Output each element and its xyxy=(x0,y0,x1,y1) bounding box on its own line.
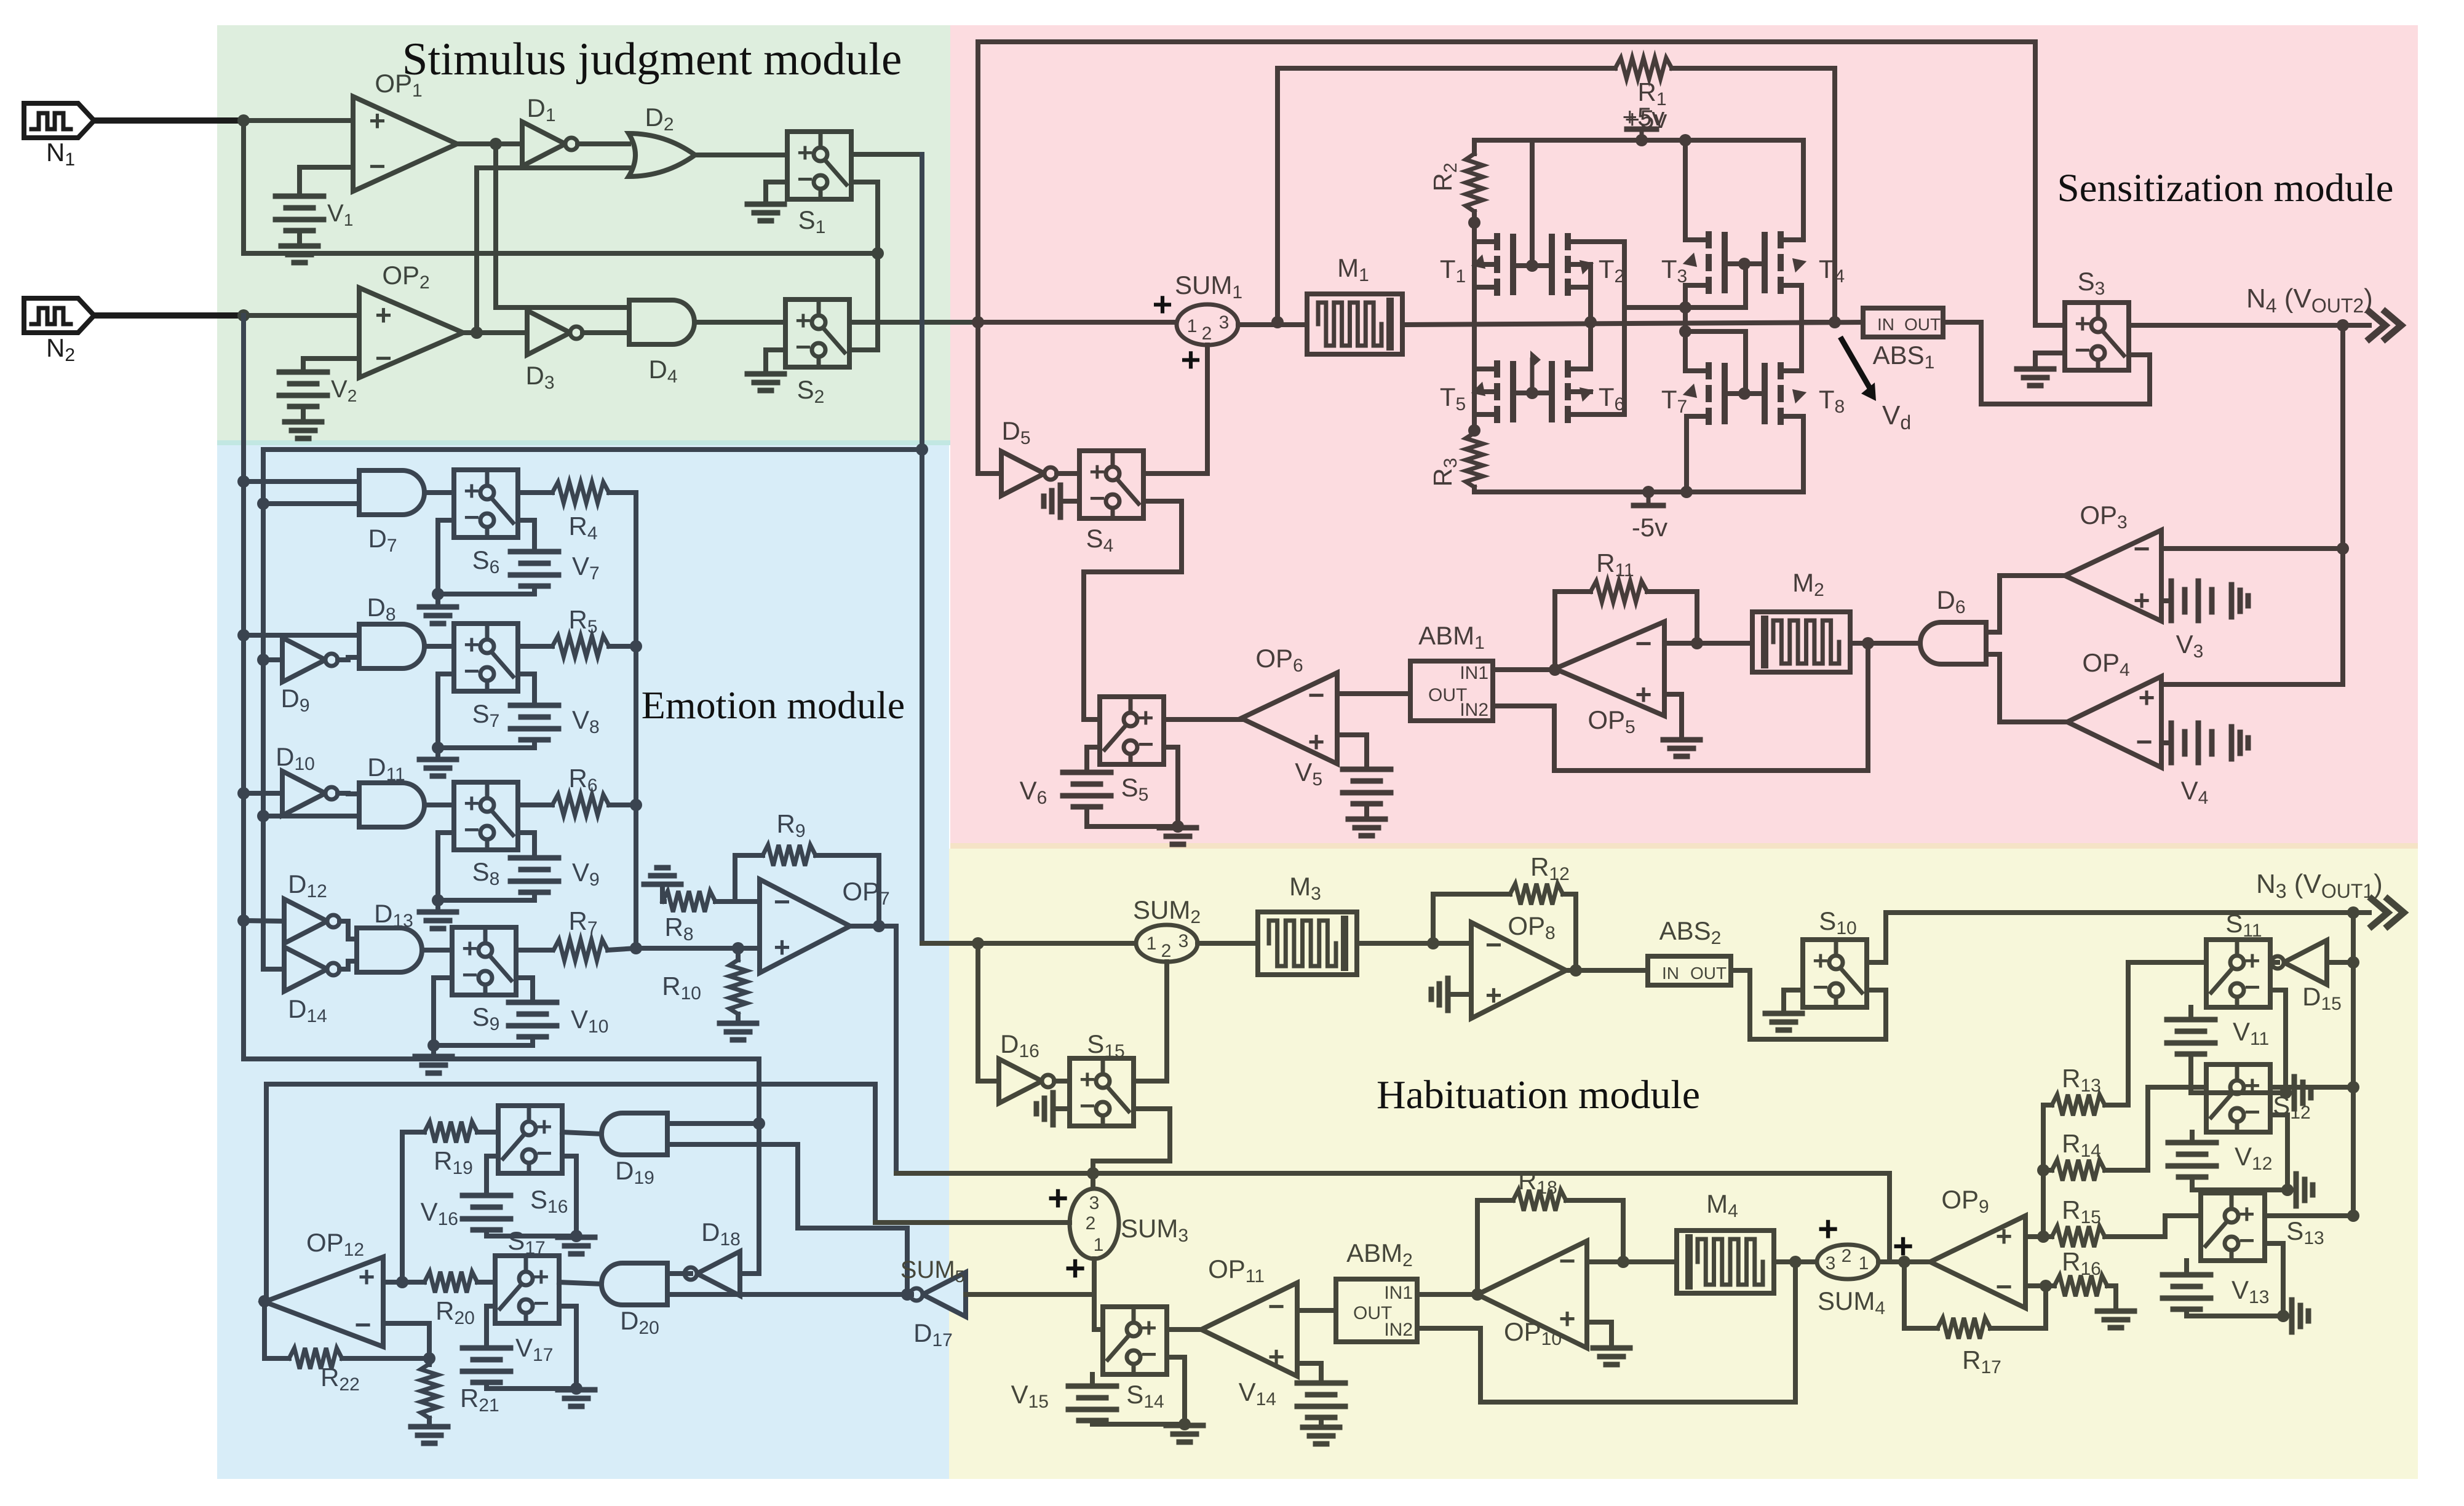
svg-text:Sensitization module: Sensitization module xyxy=(2057,166,2393,210)
svg-text:+: + xyxy=(2244,1071,2260,1101)
svg-text:−: − xyxy=(797,164,813,194)
svg-text:+: + xyxy=(797,138,813,168)
svg-text:+: + xyxy=(2244,946,2260,976)
svg-text:−: − xyxy=(1813,972,1829,1002)
svg-text:−: − xyxy=(1559,1245,1576,1277)
svg-text:−: − xyxy=(1141,1339,1157,1369)
svg-text:−: − xyxy=(536,1138,552,1168)
svg-text:IN2: IN2 xyxy=(1460,700,1488,720)
svg-text:+: + xyxy=(1485,979,1502,1011)
svg-text:−: − xyxy=(464,502,480,533)
svg-text:+: + xyxy=(536,1112,552,1142)
svg-text:IN: IN xyxy=(1877,315,1894,334)
svg-text:−: − xyxy=(2075,335,2091,365)
svg-text:−: − xyxy=(1996,1270,2013,1302)
svg-text:+: + xyxy=(2139,681,2155,713)
svg-text:−: − xyxy=(2134,533,2150,565)
svg-text:Stimulus judgment module: Stimulus judgment module xyxy=(402,34,902,85)
svg-text:+: + xyxy=(1047,1178,1068,1218)
svg-text:3: 3 xyxy=(1178,931,1189,951)
svg-text:+: + xyxy=(359,1261,375,1293)
svg-text:+: + xyxy=(464,788,480,818)
svg-text:+: + xyxy=(774,931,790,963)
svg-text:IN2: IN2 xyxy=(1384,1320,1413,1340)
svg-text:2: 2 xyxy=(1842,1246,1852,1266)
svg-text:+: + xyxy=(464,476,480,506)
svg-text:−: − xyxy=(1268,1290,1285,1322)
svg-text:2: 2 xyxy=(1202,323,1212,344)
svg-text:-5v: -5v xyxy=(1632,513,1667,542)
svg-text:+: + xyxy=(464,630,480,660)
svg-text:−: − xyxy=(1635,627,1652,659)
svg-text:−: − xyxy=(462,960,478,990)
svg-text:−: − xyxy=(795,332,811,362)
svg-text:−: − xyxy=(2244,1097,2260,1127)
svg-text:−: − xyxy=(464,815,480,845)
svg-text:−: − xyxy=(1089,483,1105,513)
svg-text:IN1: IN1 xyxy=(1460,663,1488,683)
svg-text:1: 1 xyxy=(1094,1235,1104,1255)
svg-text:+: + xyxy=(369,105,386,137)
svg-text:Emotion module: Emotion module xyxy=(642,683,905,727)
svg-text:+: + xyxy=(795,306,811,336)
svg-text:+: + xyxy=(462,933,478,964)
svg-text:3: 3 xyxy=(1219,312,1230,333)
svg-text:−: − xyxy=(375,342,392,374)
svg-text:OUT: OUT xyxy=(1904,315,1941,334)
svg-text:+: + xyxy=(1153,285,1173,323)
svg-text:−: − xyxy=(1485,929,1502,961)
svg-text:+5v: +5v xyxy=(1623,102,1665,131)
svg-text:+: + xyxy=(1138,703,1154,733)
svg-text:+: + xyxy=(2075,309,2091,339)
svg-text:−: − xyxy=(2136,726,2153,758)
svg-text:IN: IN xyxy=(1662,964,1679,983)
svg-text:+: + xyxy=(1181,340,1201,379)
svg-text:−: − xyxy=(2244,972,2260,1002)
svg-text:+: + xyxy=(1065,1248,1086,1288)
svg-text:−: − xyxy=(369,150,386,182)
svg-text:+: + xyxy=(1141,1313,1157,1343)
svg-text:+: + xyxy=(1308,726,1325,758)
svg-text:1: 1 xyxy=(1859,1253,1869,1274)
svg-text:−: − xyxy=(464,656,480,686)
svg-text:2: 2 xyxy=(1161,941,1172,961)
svg-text:+: + xyxy=(1813,946,1829,976)
svg-text:−: − xyxy=(1138,729,1154,759)
svg-text:−: − xyxy=(1308,679,1325,711)
svg-text:3: 3 xyxy=(1089,1193,1100,1213)
svg-text:−: − xyxy=(2239,1226,2255,1256)
svg-text:IN1: IN1 xyxy=(1384,1283,1413,1303)
svg-text:+: + xyxy=(2239,1199,2255,1229)
svg-text:+: + xyxy=(1996,1220,2013,1252)
svg-text:SUM5: SUM5 xyxy=(900,1256,964,1286)
svg-text:+: + xyxy=(1818,1209,1838,1249)
svg-text:1: 1 xyxy=(1187,316,1198,336)
svg-text:OUT: OUT xyxy=(1690,964,1727,983)
svg-text:+: + xyxy=(2134,584,2150,616)
svg-text:Habituation module: Habituation module xyxy=(1377,1072,1700,1117)
svg-text:+: + xyxy=(375,299,392,331)
svg-text:3: 3 xyxy=(1826,1253,1836,1274)
svg-text:+: + xyxy=(533,1262,549,1292)
svg-text:+: + xyxy=(1079,1064,1095,1095)
svg-text:+: + xyxy=(1268,1341,1285,1373)
svg-text:1: 1 xyxy=(1147,933,1157,954)
svg-text:−: − xyxy=(1079,1091,1095,1121)
svg-text:2: 2 xyxy=(1086,1213,1096,1234)
svg-text:+: + xyxy=(1089,457,1105,487)
svg-text:−: − xyxy=(533,1288,549,1318)
svg-text:−: − xyxy=(774,886,790,917)
svg-text:+: + xyxy=(1635,678,1652,710)
svg-text:−: − xyxy=(355,1309,372,1341)
